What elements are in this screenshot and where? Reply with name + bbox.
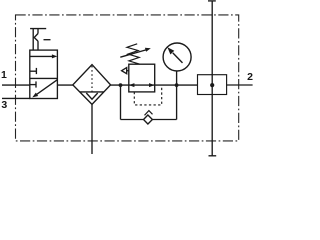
pressure gauge G1 [163, 43, 191, 71]
valve V1 position b: blocked port [30, 81, 36, 87]
valve V1 manual actuator (push-pull knob with detent) [30, 29, 50, 50]
wire valve outlet to filter [57, 84, 73, 86]
gauge needle [167, 47, 182, 63]
manifold bottom end cap [209, 155, 217, 157]
node junction filter outlet / bypass tee [119, 83, 123, 87]
check valve poppet (diamond) [144, 115, 153, 124]
regulator adjustment arrow [120, 48, 151, 57]
svg-text:3: 3 [1, 99, 7, 111]
manifold distribution line (vertical) [211, 1, 213, 156]
filter F1 body (diamond) [73, 65, 111, 105]
valve V1 position a: flow path 1-2 (arrow) [30, 54, 58, 58]
regulator pilot feedback line (dashed) [134, 85, 161, 105]
wire to port 2 [227, 84, 253, 86]
wire filter to regulator [111, 84, 129, 86]
wire regulator to outlet manifold [155, 84, 198, 86]
water separator baffle [80, 91, 104, 93]
wire bypass to check valve [121, 119, 144, 121]
manifold top end cap [208, 0, 216, 2]
valve V1 position a: blocked port [30, 68, 37, 74]
node junction outlet manifold [210, 83, 214, 87]
wire port 3 line [2, 97, 30, 99]
check valve seat (caret) [145, 111, 153, 116]
condensate drain line [91, 104, 93, 154]
node junction gauge / bypass riser [175, 83, 179, 87]
wire port 1 line [2, 84, 30, 86]
enclosure boundary (dash-dot frame) [16, 15, 239, 141]
filter element (dotted centre line) [91, 66, 93, 92]
regulator flow path with seats [129, 83, 155, 87]
bypass riser to outlet line [176, 85, 178, 119]
water separator vanes (chevron) [86, 93, 97, 99]
regulator adjustment spring (zigzag) [127, 44, 140, 64]
svg-text:1: 1 [1, 69, 7, 81]
outlet manifold block [198, 75, 227, 95]
bypass branch line down from tee [120, 85, 122, 119]
valve V1 body (3/2-way shut-off valve, two position boxes) [30, 50, 58, 98]
regulator R1 body [129, 64, 155, 92]
svg-text:2: 2 [247, 71, 253, 83]
wire check valve to riser [152, 119, 176, 121]
gauge connection stem [176, 71, 178, 85]
valve V1 position b: exhaust path 2-3 (diagonal arrow) [32, 80, 57, 98]
regulator relief vent (triangle) [122, 68, 129, 74]
